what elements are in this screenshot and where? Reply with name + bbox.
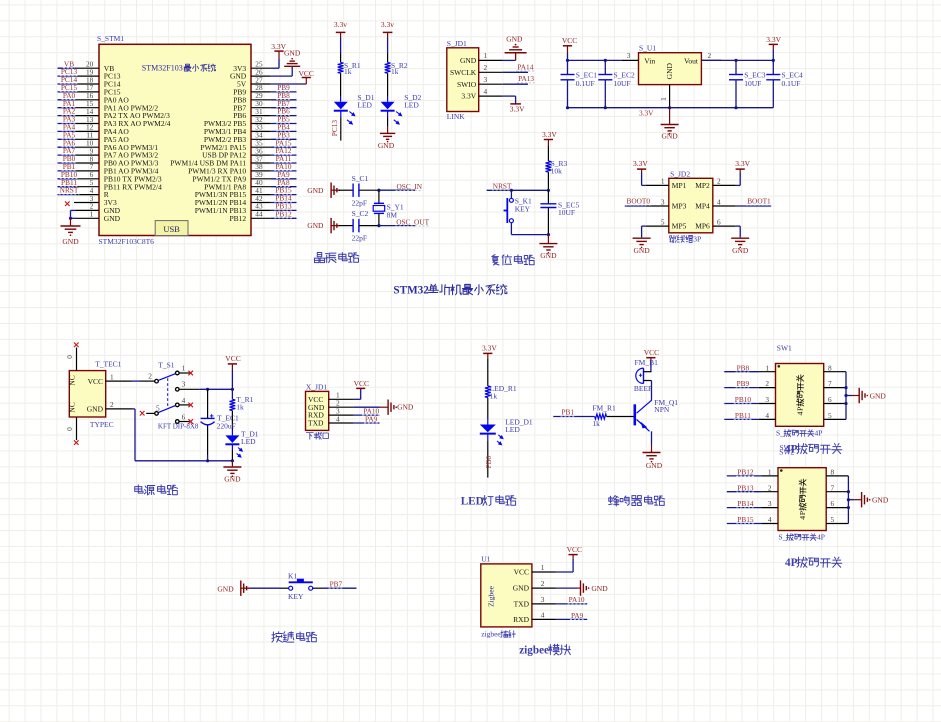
svg-text:1k: 1k <box>490 392 498 401</box>
svg-text:P: P <box>796 406 805 411</box>
wire key bottom <box>510 223 512 235</box>
wire vcc rail to T_R1 <box>231 389 233 399</box>
junction EC2 <box>604 59 607 62</box>
svg-text:VCC: VCC <box>567 545 582 554</box>
mcu right pin 32 (PWM3/2 PB5) <box>204 115 297 129</box>
power 3.3V led circuit <box>483 352 492 354</box>
ground JD1 pin1 (inverted) <box>505 52 527 54</box>
svg-text:zigbee: zigbee <box>481 630 501 639</box>
svg-text:8: 8 <box>831 468 835 477</box>
svg-text:2: 2 <box>541 579 545 588</box>
mcu left pin 7 (PB1 AO PWM3/4) <box>58 162 159 176</box>
ground mcu bottom-left <box>70 218 72 226</box>
ground XJD1 sideways <box>387 400 389 415</box>
svg-text:PB11: PB11 <box>735 411 751 420</box>
mcu left pin 3 (3V3) <box>65 194 117 207</box>
svg-text:RXD: RXD <box>513 615 529 624</box>
wire Vout rail <box>701 59 773 61</box>
svg-text:5: 5 <box>831 515 835 524</box>
U1 pin 2 line <box>532 579 556 588</box>
svg-text:2: 2 <box>765 379 769 388</box>
SW1 pin 2 net PB9 <box>724 379 775 388</box>
wire XJD1 pin2 to GND <box>354 406 380 408</box>
T_TEC1 top pin 0 no-connect <box>76 348 78 371</box>
S_JD2 pin 6 line <box>713 217 736 226</box>
capacitor S_EC3 10UF <box>729 60 766 107</box>
ground branch2 <box>380 132 395 134</box>
U1 pin 3 line <box>532 595 556 604</box>
junction reset gnd <box>547 233 550 236</box>
mcu right pin 38 (PWM1/3 RX PA10) <box>188 162 296 176</box>
svg-text:PB1: PB1 <box>562 408 575 417</box>
svg-text:6: 6 <box>831 499 835 508</box>
mcu right pin 33 (PWM3/1 PB4) <box>204 123 297 137</box>
svg-text:FM_R1: FM_R1 <box>592 403 616 412</box>
SW1 pin 1 net PB8 <box>724 363 775 372</box>
mcu left pin 11 (PA5 AO) <box>58 130 130 144</box>
svg-text:BOOT0: BOOT0 <box>627 197 651 206</box>
svg-text:3.3V: 3.3V <box>542 130 557 139</box>
svg-text:0.1UF: 0.1UF <box>576 79 595 88</box>
svg-text:KEY: KEY <box>288 592 304 601</box>
mcu left pin 19 (PC13) <box>58 67 121 81</box>
svg-text:2: 2 <box>148 372 152 381</box>
wire pin25 to 3.3V <box>271 67 279 69</box>
svg-text:4: 4 <box>796 412 805 416</box>
mcu left pin 10 (PA6 AO PWM3/1) <box>58 138 159 152</box>
junction osc_in <box>377 189 380 192</box>
svg-text:0.1UF: 0.1UF <box>782 79 801 88</box>
svg-text:4: 4 <box>541 610 545 619</box>
ground JD2 right <box>739 237 741 238</box>
svg-text:S_C2: S_C2 <box>352 209 369 218</box>
svg-text:SWCLK: SWCLK <box>450 68 477 77</box>
mcu right pin 42 (PWM1/2N PB14) <box>195 194 297 208</box>
svg-text:PB7: PB7 <box>330 580 343 589</box>
wire U1 pin4 net PA9 <box>556 618 587 620</box>
mcu left pin 9 (PA7 AO PWM3/2) <box>58 146 159 160</box>
mcu right pin 27 (5V) <box>237 75 271 88</box>
svg-text:5: 5 <box>828 411 832 420</box>
svg-text:PB12: PB12 <box>275 209 292 218</box>
svg-text:1: 1 <box>541 563 545 572</box>
wire S_R1 to S_D1 <box>340 73 342 97</box>
wire pin3 to VCC rail <box>200 388 233 390</box>
switch pin3 stub <box>179 388 200 390</box>
power VCC buzzer <box>646 357 655 359</box>
jumper S_JD2 body <box>669 178 713 233</box>
svg-text:NPN: NPN <box>654 405 670 414</box>
power 3.3v branch1 <box>336 31 346 33</box>
wire SW2 gnd bus <box>847 476 849 524</box>
svg-text:Vout: Vout <box>684 56 699 65</box>
svg-text:PB11 RX PWM2/4: PB11 RX PWM2/4 <box>104 182 162 191</box>
svg-text:10UF: 10UF <box>614 79 631 88</box>
svg-text:4P: 4P <box>817 533 825 542</box>
mcu right pin 29 (PB8) <box>233 91 296 105</box>
svg-text:3.3v: 3.3v <box>334 20 347 29</box>
wire PB1 to base resistor <box>553 416 594 418</box>
svg-text:S_: S_ <box>776 429 784 438</box>
svg-text:22pF: 22pF <box>352 198 367 207</box>
mcu right pin 30 (PB7) <box>233 99 296 113</box>
wire JD1 pin2 net PA14 <box>503 71 528 73</box>
svg-text:PB15: PB15 <box>737 515 754 524</box>
SW2 pin 3 net PB14 <box>727 499 778 508</box>
svg-text:S_: S_ <box>779 533 787 542</box>
S_JD1 pin 1 line <box>479 51 503 60</box>
S_JD2 pin 1 line <box>646 177 669 186</box>
power VCC T <box>228 363 237 365</box>
junction EC1 <box>566 59 569 62</box>
mcu left pin 6 (PB10 TX PWM2/3) <box>58 170 162 184</box>
svg-text:STM32F103: STM32F103 <box>142 64 183 73</box>
svg-text:1: 1 <box>768 468 772 477</box>
resistor S_R2 1k <box>385 61 408 76</box>
buzzer FM_B1 symbol <box>636 368 652 383</box>
svg-text:PA14: PA14 <box>517 62 533 71</box>
usb box on mcu <box>155 221 188 236</box>
svg-text:3: 3 <box>541 595 545 604</box>
wire bottom rail 3.3V net <box>568 107 774 109</box>
wire JD2 pin5 to GND <box>642 225 646 227</box>
switch pin4 stub no-connect <box>179 404 189 406</box>
junction EC3 bottom <box>734 106 737 109</box>
junction bottom led <box>231 459 234 462</box>
svg-text:S_STM1: S_STM1 <box>97 34 124 43</box>
mcu right pin 31 (PB6) <box>233 107 296 121</box>
mcu left pin 17 (PC15) <box>58 83 121 97</box>
mcu left pin 5 (PB11 RX PWM2/4) <box>58 178 163 192</box>
wire XJD1 pin4 net PA9 <box>354 422 380 424</box>
switch pin5 stub no-connect <box>146 412 154 414</box>
svg-text:3: 3 <box>484 75 488 84</box>
svg-text:GND: GND <box>872 496 889 505</box>
svg-text:PB12: PB12 <box>230 214 247 223</box>
svg-text:BOOT1: BOOT1 <box>747 197 771 206</box>
svg-text:0: 0 <box>65 355 74 359</box>
svg-text:1: 1 <box>90 210 94 219</box>
junction cap top <box>206 388 209 391</box>
svg-text:GND: GND <box>224 475 241 484</box>
X_JD1 pin 1 line <box>329 391 354 400</box>
svg-text:OSC_OUT: OSC_OUT <box>396 217 429 226</box>
wire T_D1 to rail <box>231 444 233 450</box>
SW2 pin 6 line <box>826 499 848 508</box>
svg-text:LINK: LINK <box>447 112 465 121</box>
wire buzzer to collector <box>651 381 653 400</box>
svg-text:LED: LED <box>505 425 520 434</box>
mcu left pin 4 (R) <box>58 186 109 200</box>
resistor S_R3 10k <box>546 159 568 176</box>
wire branch2 top <box>387 32 389 37</box>
power 3.3V JD2 left <box>637 168 646 170</box>
svg-text:PA9: PA9 <box>571 611 584 620</box>
power 3.3V right rail <box>769 43 778 45</box>
svg-text:0: 0 <box>65 427 74 431</box>
S_U1 pin3 Vin <box>622 59 639 61</box>
connector X_JD1 label <box>306 433 313 440</box>
mcu left pin 18 (PC14) <box>58 75 121 89</box>
mcu left pin 8 (PB0 AO PWM3/3) <box>58 154 159 168</box>
svg-text:22pF: 22pF <box>352 234 367 243</box>
svg-text:GND: GND <box>540 251 557 260</box>
S_U1 pin1 GND <box>669 85 671 108</box>
resistor LED_R1 1k <box>485 384 517 401</box>
svg-text:USB: USB <box>163 224 180 234</box>
resistor FM_R1 1k horizontal <box>592 403 616 428</box>
capacitor S_C2 22pF <box>352 209 369 242</box>
svg-text:5: 5 <box>156 404 160 413</box>
T_TEC1 pin1 VCC line <box>106 380 132 382</box>
mcu right pin 39 (PWM1/2 TX PA9) <box>192 170 296 184</box>
svg-text:S_JD1: S_JD1 <box>447 39 467 48</box>
svg-text:OSC_IN: OSC_IN <box>397 182 423 191</box>
wire JD2 pin2 to 3.3V <box>736 184 740 186</box>
wire key to PB7 <box>313 587 322 589</box>
S_JD1 pin 4 line <box>479 87 503 96</box>
svg-text:GND: GND <box>665 62 674 79</box>
svg-text:GND: GND <box>62 237 79 246</box>
led S_D2 LED <box>381 93 422 125</box>
svg-text:3.3v: 3.3v <box>381 20 394 29</box>
svg-text:VCC: VCC <box>354 379 369 388</box>
ground reset <box>547 235 549 244</box>
wire U1 pin2 to GND <box>556 587 577 589</box>
svg-text:VCC: VCC <box>562 36 577 45</box>
svg-text:T_TEC1: T_TEC1 <box>95 360 121 369</box>
svg-text:VCC: VCC <box>299 69 314 78</box>
mcu right pin 41 (PWM1/3N PB15) <box>195 186 297 200</box>
svg-text:4P: 4P <box>785 557 798 569</box>
S_JD1 pin 2 line <box>479 63 503 72</box>
svg-text:5: 5 <box>661 217 665 226</box>
junction cap <box>547 189 550 192</box>
key K1 KEY <box>288 571 313 601</box>
svg-text:MP3: MP3 <box>672 202 687 211</box>
svg-text:KFT DIP-8X8: KFT DIP-8X8 <box>158 422 199 430</box>
mcu left pin 14 (PA2 TX AO PWM2/3) <box>58 107 171 121</box>
svg-text:3.3V: 3.3V <box>482 344 497 353</box>
transistor FM_Q1 NPN <box>635 398 679 431</box>
junction EC1 bottom <box>566 106 569 109</box>
mcu U S_STM1 body <box>99 44 251 235</box>
X_JD1 pin 4 line <box>329 414 354 423</box>
svg-text:NRST: NRST <box>60 186 79 195</box>
svg-text:2: 2 <box>110 400 114 409</box>
junction gnd <box>668 106 671 109</box>
svg-text:KEY: KEY <box>515 205 531 214</box>
svg-text:LED: LED <box>461 495 484 507</box>
junction vcc rail <box>231 388 234 391</box>
S_JD2 pin 5 line <box>646 217 669 226</box>
mcu right pin 26 (GND) <box>230 67 271 80</box>
svg-text:zigbee: zigbee <box>519 644 549 656</box>
wire crystal vertical <box>378 190 380 203</box>
mcu right pin 43 (PWM1/1N PB13) <box>195 202 297 216</box>
capacitor S_C1 22pF <box>352 174 369 208</box>
T_TEC1 pin2 GND line <box>106 408 132 410</box>
wire mcu GND pins 1-2 join <box>70 210 72 218</box>
regulator S_U1 body <box>639 53 702 85</box>
svg-text:GND: GND <box>217 585 234 594</box>
svg-text:GND: GND <box>633 246 650 255</box>
wire gnd to S_C1 <box>331 189 339 191</box>
svg-text:3: 3 <box>182 380 186 389</box>
svg-text:PA9: PA9 <box>365 414 378 423</box>
svg-text:GND: GND <box>646 461 663 470</box>
wire resistor to base <box>607 416 634 418</box>
wire S_C1 to OSC_IN <box>359 189 379 191</box>
svg-text:4: 4 <box>768 515 772 524</box>
wire JD1 pin1 to GND <box>503 59 516 61</box>
capacitor T_EC1 220uF electrolytic <box>201 389 239 461</box>
svg-text:K1: K1 <box>288 571 297 580</box>
wire pin27 to VCC <box>271 83 307 85</box>
X_JD1 pin 3 line <box>329 407 354 416</box>
wire 3.3V to S_R3 <box>547 140 549 147</box>
junction mcu gnd <box>69 217 72 220</box>
wire JD2 pin4 net BOOT1 <box>736 205 771 207</box>
svg-text:PB10: PB10 <box>735 395 752 404</box>
svg-text:STM32F103C8T6: STM32F103C8T6 <box>99 237 155 246</box>
svg-text:MP2: MP2 <box>695 181 710 190</box>
dip switch SW2 body <box>778 468 826 531</box>
svg-text:220uF: 220uF <box>217 422 236 431</box>
wire JD1 pin3 net PA13 <box>503 83 528 85</box>
mcu right pin 36 (USB DP PA12) <box>202 146 296 160</box>
mcu left pin 1 (GND) <box>71 210 121 223</box>
S_JD1 pin 3 line <box>479 75 503 84</box>
wire JD2 pin3 net BOOT0 <box>625 205 646 207</box>
mcu left pin 16 (PA0 AO) <box>58 91 130 105</box>
svg-text:STM32: STM32 <box>393 285 429 297</box>
junction EC3 <box>734 59 737 62</box>
svg-text:GND: GND <box>307 221 324 230</box>
ground SW2 <box>848 499 854 501</box>
svg-text:4: 4 <box>798 516 807 520</box>
svg-text:PB14: PB14 <box>737 499 754 508</box>
svg-text:3.3V: 3.3V <box>735 159 750 168</box>
mcu right pin 44 (PB12) <box>230 209 297 223</box>
resistor T_R1 1k <box>230 395 254 412</box>
caption key circuit <box>272 632 282 642</box>
junction key <box>510 189 513 192</box>
capacitor S_EC1 0.1UF <box>561 60 598 107</box>
svg-text:FM_B1: FM_B1 <box>635 358 659 367</box>
power VCC left rail <box>563 45 572 47</box>
svg-text:2: 2 <box>768 483 772 492</box>
svg-text:S_U1: S_U1 <box>639 43 656 52</box>
svg-text:3.3V: 3.3V <box>461 92 476 101</box>
svg-text:S_C1: S_C1 <box>352 174 369 183</box>
svg-text:10UF: 10UF <box>744 79 761 88</box>
SW1 pin 4 net PB11 <box>724 411 775 420</box>
svg-text:Zigbee: Zigbee <box>486 585 495 606</box>
svg-text:1k: 1k <box>344 67 352 76</box>
SW2 pin 5 line <box>826 515 848 524</box>
S_JD2 pin 3 line <box>646 197 669 206</box>
junction osc_out <box>377 224 380 227</box>
SW2 pin 1 net PB12 <box>727 468 778 477</box>
svg-text:4: 4 <box>336 414 340 423</box>
led LED_D1 <box>480 417 533 445</box>
switch pin6 stub no-connect <box>179 421 189 423</box>
T_TEC1 bottom pin 0 no-connect <box>76 417 78 440</box>
SW1 pin 6 line <box>824 395 846 404</box>
svg-text:MP6: MP6 <box>695 222 710 231</box>
resistor S_R1 1k <box>338 61 361 76</box>
mcu left pin 2 (GND) <box>71 202 121 215</box>
svg-text:3: 3 <box>627 51 631 60</box>
svg-text:8: 8 <box>828 363 832 372</box>
svg-text:TXD: TXD <box>308 419 324 428</box>
S_JD2 pin 4 line <box>713 197 736 206</box>
power 3.3V JD2 right <box>736 168 745 170</box>
SW2 pin 2 net PB13 <box>727 483 778 492</box>
wire Vin rail <box>568 59 622 61</box>
svg-text:GND: GND <box>307 186 324 195</box>
U1 pin 1 line <box>532 563 556 572</box>
wire S_D1 to net PC13 <box>340 111 342 117</box>
caption reset circuit <box>492 255 499 265</box>
ground power circuit <box>231 461 233 467</box>
mcu right pin 40 (PWM1/1 PA8) <box>204 178 296 192</box>
switch pin1 stub no-connect <box>179 372 189 374</box>
junction EC2 bottom <box>604 106 607 109</box>
caption crystal circuit <box>314 253 324 263</box>
svg-text:4P: 4P <box>815 429 823 438</box>
svg-text:Vin: Vin <box>644 56 655 65</box>
wire S_R2 to S_D2 <box>387 73 389 97</box>
svg-text:1: 1 <box>484 51 488 60</box>
svg-text:GND: GND <box>284 49 301 58</box>
svg-text:3.3V: 3.3V <box>510 104 525 113</box>
ground at mcu pin26 (inverted) <box>284 65 300 67</box>
wire gnd to key <box>241 587 250 589</box>
power VCC XJD1 <box>356 387 365 389</box>
caption power circuit <box>135 485 143 493</box>
wire U1 pin3 net PA10 <box>556 603 587 605</box>
SW1 pin 3 net PB10 <box>724 395 775 404</box>
svg-text:PB12: PB12 <box>737 468 754 477</box>
svg-text:VCC: VCC <box>644 348 659 357</box>
mcu right pin 37 (PWM1/4 USB DM PA11) <box>170 154 296 168</box>
wire SW1 gnd bus <box>845 372 847 420</box>
power 3.3V at mcu pin25 <box>274 50 283 52</box>
svg-text:GND: GND <box>397 403 414 412</box>
svg-text:PA10: PA10 <box>569 595 585 604</box>
svg-text:6: 6 <box>828 395 832 404</box>
wire LED_R1 to LED_D1 <box>487 398 489 419</box>
wire NRST <box>487 189 549 191</box>
S_U1 pin2 Vout <box>701 59 721 61</box>
wire JD1 pin4 to 3.3V <box>503 95 516 97</box>
mcu right pin 25 (3V3) <box>233 60 271 73</box>
svg-text:2: 2 <box>708 51 712 60</box>
mcu right pin 35 (PWM2/1 PA15) <box>200 138 296 152</box>
mcu right pin 28 (PB9) <box>233 83 296 97</box>
svg-text:MP4: MP4 <box>695 202 710 211</box>
wire T_R1 to T_D1 <box>231 411 233 430</box>
svg-text:NC: NC <box>68 375 77 385</box>
svg-text:2: 2 <box>717 177 721 186</box>
wire XJD1 pin3 net PA10 <box>354 414 380 416</box>
svg-text:GND: GND <box>378 141 395 150</box>
svg-text:1: 1 <box>765 363 769 372</box>
svg-text:3.3V: 3.3V <box>633 159 648 168</box>
ground zigbee sideways <box>580 580 582 595</box>
